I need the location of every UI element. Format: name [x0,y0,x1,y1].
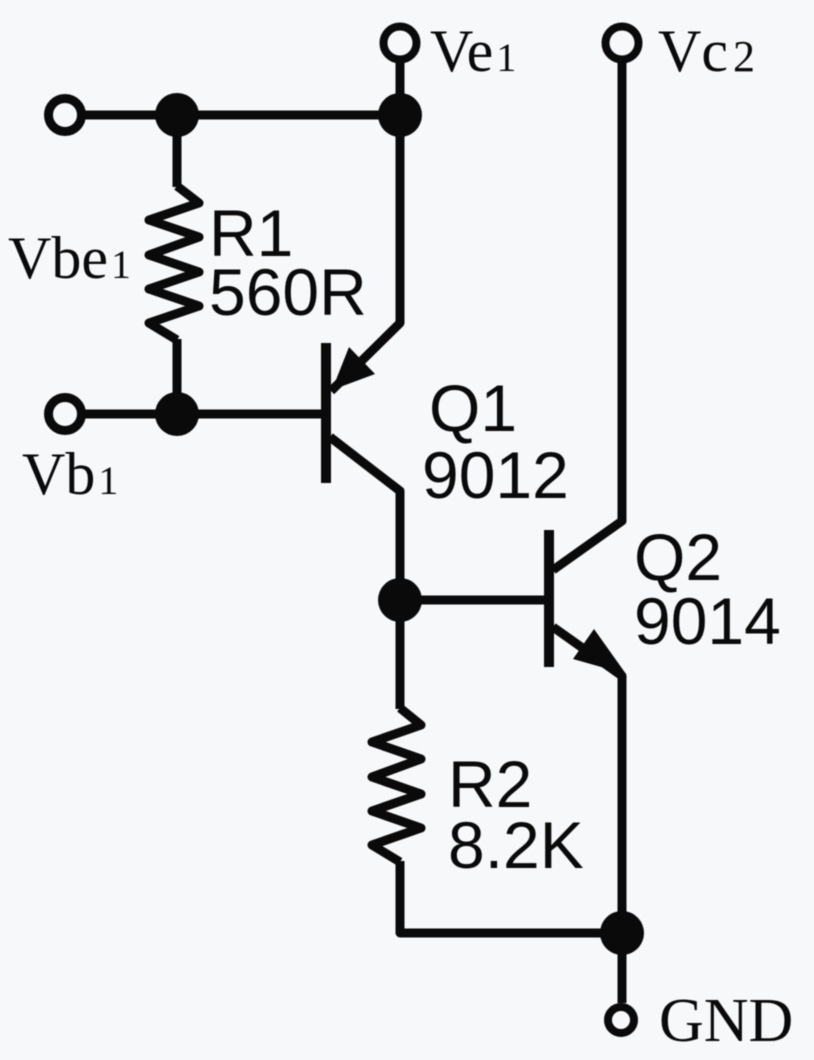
wire Vb1 row to Q1 base [65,410,322,419]
terminal Vb1 [49,398,82,431]
wire Q1 collector diagonal down to Q2 base node [330,437,400,600]
terminal Vc2 [606,27,639,60]
wire R2 top lead [396,600,405,709]
wire Q2 emitter diagonal down to bottom node [553,627,622,933]
svg-text:9012: 9012 [422,438,569,512]
svg-text:Q1: Q1 [429,371,517,445]
wire Q2 base lead [400,596,545,605]
terminal GND [608,1007,634,1033]
node junction dot bottom [600,911,644,955]
wire R1 bottom lead [173,339,182,414]
terminal Ve1 [384,27,417,60]
node junction dot top-left [155,93,199,137]
wire Vc2 vertical down to Q2 collector diagonal [553,43,622,570]
transistor Q2 [544,530,626,674]
wire Ve1 stub down through Q1 emitter diagonal [331,43,400,391]
wire R2 bottom lead and bottom horizontal [400,861,622,933]
node junction dot under Ve1 [378,93,422,137]
svg-text:GND: GND [659,987,793,1055]
node junction dot Vb1 [155,392,199,436]
svg-text:Q2: Q2 [634,520,722,594]
wire top horizontal Vbe1 row [65,111,400,120]
wire R1 top lead [173,115,182,187]
svg-text:9014: 9014 [634,584,781,658]
resistor R1 [149,186,199,340]
svg-text:560R: 560R [209,255,367,329]
terminal Vbe1 top [49,99,82,132]
transistor Q1 [321,343,375,483]
wire GND stub [618,933,627,1003]
resistor R2 [372,708,421,862]
svg-text:8.2K: 8.2K [448,808,584,882]
node junction dot Q1 collector / Q2 base [378,578,422,622]
